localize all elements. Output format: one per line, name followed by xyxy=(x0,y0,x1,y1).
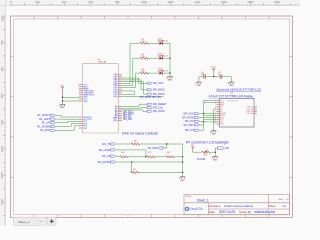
net port RL_RIGHT xyxy=(38,114,56,117)
junction R6 branch xyxy=(166,143,167,144)
junction bus row2 xyxy=(182,156,183,157)
net port SPI_MISO xyxy=(147,89,165,92)
svg-text:LED+: LED+ xyxy=(220,124,225,126)
svg-text:RS_ROD: RS_ROD xyxy=(148,147,159,150)
mcu left pins group B with names xyxy=(79,117,93,130)
svg-text:220: 220 xyxy=(141,41,144,43)
svg-text:SW_DATA: SW_DATA xyxy=(153,110,165,113)
net port SPI_RST (lcd input) xyxy=(183,124,199,127)
wire RS_TX to R6 xyxy=(115,143,131,145)
net port AS_ROD xyxy=(148,147,163,150)
wire branch to AS_ROD port xyxy=(163,144,167,148)
ground symbol (backlight) xyxy=(212,156,218,158)
svg-text:220: 220 xyxy=(141,56,144,58)
resistor R3 xyxy=(140,69,148,74)
svg-text:AO-3504_R: AO-3504_R xyxy=(158,69,169,72)
wire R7 to R8 xyxy=(155,156,166,158)
ground symbol (lcd) xyxy=(210,131,216,133)
svg-text:220: 220 xyxy=(141,71,144,73)
ground symbol (LED bus) xyxy=(167,77,173,79)
svg-text:1400: 1400 xyxy=(0,199,4,206)
frame division ticks xyxy=(11,16,293,218)
resistor R6 xyxy=(131,140,139,145)
ground symbol (C4) xyxy=(196,82,202,84)
net labels on mcu right pins xyxy=(123,112,134,121)
net port LED_A xyxy=(217,147,229,150)
resistor R1 xyxy=(140,39,148,44)
svg-text:10-100K: 10-100K xyxy=(197,159,206,161)
wire mcu pin to port SW_DATA xyxy=(122,110,147,111)
wire mcu pin to net label SPI_MISO xyxy=(122,95,164,97)
wire rail to ground xyxy=(62,101,64,104)
junction bus RS_DOWN xyxy=(182,161,183,162)
wire LED3 to bus xyxy=(163,72,170,74)
svg-text:Company:: Company: xyxy=(209,204,221,208)
svg-text:RS_DOWN: RS_DOWN xyxy=(98,161,111,164)
junction LED bus row3 xyxy=(169,72,170,73)
svg-text:SPI_MOSI: SPI_MOSI xyxy=(182,117,194,120)
junction RS_DOWN branch xyxy=(131,161,132,162)
svg-text:Sheet:: Sheet: xyxy=(269,205,276,208)
thermistor RT1 xyxy=(197,149,210,161)
svg-text:GND: GND xyxy=(197,85,202,87)
wire RS_LOAD elbow xyxy=(115,150,146,157)
svg-text:Date:: Date: xyxy=(209,210,216,214)
svg-text:RS_LOAD: RS_LOAD xyxy=(99,149,111,152)
svg-text:SPI_MOSI: SPI_MOSI xyxy=(153,93,165,96)
net port SPI_MOSI xyxy=(147,93,165,96)
svg-text:1200: 1200 xyxy=(167,0,174,4)
wire RT1 to node xyxy=(210,151,215,153)
svg-text:SPI_MISO: SPI_MISO xyxy=(153,89,165,92)
lcd U5 box xyxy=(219,98,254,127)
junction on 5V rail xyxy=(62,97,63,98)
junction LED bus row2 xyxy=(169,58,170,59)
LED LED1 xyxy=(158,39,169,46)
svg-text:REV:: REV: xyxy=(279,199,284,201)
svg-text:1200: 1200 xyxy=(0,172,4,179)
mcu left pins group A with names xyxy=(79,84,95,102)
LED ground bus vertical xyxy=(169,43,171,76)
svg-text:400: 400 xyxy=(62,0,67,4)
svg-text:Sainsmart 160X128 ST7735R LCD: Sainsmart 160X128 ST7735R LCD xyxy=(216,87,261,91)
wire R3 to LED3 xyxy=(148,72,160,74)
wire RS_DOWN long xyxy=(115,161,182,163)
svg-text:SPI_RST: SPI_RST xyxy=(183,124,194,127)
power flag 3V3 xyxy=(211,68,216,72)
svg-text:400: 400 xyxy=(0,66,4,71)
svg-text:AO-3504_R: AO-3504_R xyxy=(158,54,169,57)
wire lcd gnd pin down xyxy=(214,109,217,131)
wire lcd bus vertical xyxy=(203,101,205,131)
wire RL_RIGHT to mcu pin xyxy=(55,115,79,117)
net port SPI_MOSI (lcd input) xyxy=(182,117,199,120)
net port SPI_DC (lcd input) xyxy=(185,120,199,123)
junction backlight node xyxy=(215,152,216,153)
svg-text:GND: GND xyxy=(180,180,185,182)
svg-text:100n: 100n xyxy=(201,74,205,76)
svg-text:2022-04-09: 2022-04-09 xyxy=(219,210,236,214)
wire 5V to RT1 xyxy=(193,151,202,153)
net port SPI_CS (lcd input) xyxy=(185,129,199,132)
wire branch down to R9 xyxy=(131,162,132,172)
junction 3V3 rail xyxy=(213,76,214,77)
wire mcu pin to port SPI_SCK xyxy=(122,78,147,83)
svg-text:GND: GND xyxy=(211,134,216,136)
ground symbol (mcu left) xyxy=(59,104,65,106)
svg-text:RS_UP: RS_UP xyxy=(102,155,111,158)
svg-text:Drawn By:: Drawn By: xyxy=(239,210,252,214)
resistor R2 xyxy=(140,54,148,59)
svg-text:600: 600 xyxy=(0,93,4,98)
wire R10 to R7 xyxy=(129,156,147,158)
svg-text:1800: 1800 xyxy=(247,0,254,4)
svg-text:Sheet_1: Sheet_1 xyxy=(197,198,209,202)
svg-text:Sheet_1: Sheet_1 xyxy=(18,220,30,224)
svg-text:Crash Course arduino: Crash Course arduino xyxy=(224,204,254,208)
mcu right pins group B with names xyxy=(114,105,122,122)
wire R2 to LED2 xyxy=(148,57,160,59)
svg-text:TITLE:: TITLE: xyxy=(185,196,192,198)
wire RL_LEFT to mcu pin xyxy=(55,118,79,120)
resistor R7 xyxy=(147,152,155,158)
wire node to port LED_A xyxy=(215,148,217,152)
title block border xyxy=(184,195,290,215)
power flag 5V (mcu left) xyxy=(61,86,64,97)
wire 3V3 stem xyxy=(213,72,215,77)
wire R9 to bus xyxy=(139,171,183,173)
svg-text:200: 200 xyxy=(35,0,40,4)
wire 5V rail down xyxy=(63,97,79,101)
svg-text:1.8 inch TFT ST7735R LCD Displ: 1.8 inch TFT ST7735R LCD Display xyxy=(208,94,253,98)
svg-text:800: 800 xyxy=(0,120,4,125)
wire RL_DOWN to mcu pin xyxy=(55,124,79,127)
junction bus row3 xyxy=(182,172,183,173)
svg-text:SPI_SCK: SPI_SCK xyxy=(153,82,164,85)
power flag 5V (backlight) xyxy=(191,146,194,153)
svg-text:SPI_SCK: SPI_SCK xyxy=(183,113,194,116)
junction rail xyxy=(62,100,63,101)
wire RS_UP to R10 xyxy=(115,155,120,158)
net port RS_UP xyxy=(102,155,115,158)
wire lcd port bundle xyxy=(199,114,203,130)
svg-text:LCD-SPI TFT: LCD-SPI TFT xyxy=(227,101,239,103)
svg-text:RT control for LCD backlight: RT control for LCD backlight xyxy=(186,141,229,145)
svg-text:SPI_CS: SPI_CS xyxy=(185,129,194,132)
svg-text:2000: 2000 xyxy=(274,0,281,4)
junction row2 xyxy=(145,156,146,157)
mcu U2 box xyxy=(82,63,118,133)
svg-text:1u: 1u xyxy=(218,74,220,76)
resistor R10 xyxy=(120,152,129,158)
svg-text:wizard4Alpha: wizard4Alpha xyxy=(254,210,274,214)
wire mcu pin to resistor R1 xyxy=(122,43,140,83)
wire mcu pin row stub xyxy=(122,91,135,95)
svg-text:12: 12 xyxy=(214,123,216,125)
wire RL_RXD to mcu pin xyxy=(55,126,79,131)
svg-text:SPI_MISO SPI_SS: SPI_MISO SPI_SS xyxy=(140,96,162,99)
sheet frame outer border xyxy=(11,16,293,218)
svg-text:SPI_RST: SPI_RST xyxy=(123,119,133,121)
wire RL_UP to mcu pin xyxy=(55,121,79,122)
svg-text:RL_RIGHT: RL_RIGHT xyxy=(38,114,51,117)
svg-text:AO-3504_R: AO-3504_R xyxy=(158,40,169,43)
ground symbol (C5) xyxy=(228,82,234,84)
wires bus to lcd pins xyxy=(204,101,217,122)
svg-text:1400: 1400 xyxy=(194,0,201,4)
lcd right pins with names xyxy=(247,107,257,115)
capacitor C4 xyxy=(201,72,206,79)
svg-text:1600: 1600 xyxy=(221,0,228,4)
wire mcu pin to resistor R2 xyxy=(122,58,140,85)
wire LED2 to bus xyxy=(163,57,170,59)
svg-text:RL_RXD: RL_RXD xyxy=(40,129,50,132)
lcd pin numbers xyxy=(214,99,216,124)
sheet frame inner border xyxy=(14,19,290,215)
wire C4 to ground xyxy=(198,77,200,82)
svg-text:GND: GND xyxy=(168,80,173,82)
wire R1 to LED1 xyxy=(148,42,160,44)
svg-text:200: 200 xyxy=(0,40,4,45)
wire mcu pin to port SPI_MISO xyxy=(122,80,147,90)
LED LED2 xyxy=(158,54,169,61)
net port RL_DOWN xyxy=(37,125,55,128)
svg-text:RL_UP: RL_UP xyxy=(42,122,50,125)
svg-text:1000: 1000 xyxy=(0,145,4,152)
capacitor C5 xyxy=(218,72,222,79)
resistor R8 xyxy=(166,152,174,158)
svg-text:GND: GND xyxy=(83,101,88,103)
net port RS_TX xyxy=(102,143,115,146)
net port SW_RESET xyxy=(147,103,167,106)
resistor R9 xyxy=(131,169,139,174)
net port SW_DATA xyxy=(147,110,165,113)
wire 5V to VIN pin xyxy=(63,96,79,98)
net port SPI_SCK xyxy=(147,82,164,85)
ladder bus vertical xyxy=(182,144,184,177)
net port RL_UP xyxy=(42,122,55,125)
svg-text:DAC for Game Controls: DAC for Game Controls xyxy=(122,132,158,136)
net port SPI_SCK (lcd input) xyxy=(183,113,199,116)
wire R6 to bus xyxy=(140,143,183,145)
svg-text:GND: GND xyxy=(213,159,218,161)
ground symbol (ladder bus) xyxy=(179,177,185,179)
svg-text:GND: GND xyxy=(60,107,65,109)
svg-text:RL_LEFT: RL_LEFT xyxy=(39,118,50,121)
net port SW_CLK xyxy=(147,107,163,110)
wire decoupling rail xyxy=(199,76,232,78)
svg-text:1000: 1000 xyxy=(141,0,148,4)
svg-text:600: 600 xyxy=(88,0,93,4)
junction on lcd bus xyxy=(203,113,204,114)
svg-text:LTB: LTB xyxy=(225,147,230,150)
svg-text:SPI_DC: SPI_DC xyxy=(185,120,194,123)
net port RS_DOWN xyxy=(98,161,116,164)
svg-text:RS_TX: RS_TX xyxy=(102,143,110,146)
wire mcu pin to port SW_RESET xyxy=(122,104,147,106)
EasyEDA logo xyxy=(185,207,204,211)
wire mcu pin to resistor R3 xyxy=(122,73,140,87)
net port RL_RXD xyxy=(40,129,55,132)
net port RS_LOAD xyxy=(99,149,115,152)
svg-text:RL_DOWN: RL_DOWN xyxy=(37,125,50,128)
svg-text:CH32_A1: CH32_A1 xyxy=(98,61,108,64)
mcu right pins group A with names xyxy=(114,74,122,98)
wire C5 to ground xyxy=(230,77,232,82)
svg-text:EasyEDA: EasyEDA xyxy=(189,207,204,211)
svg-text:LED_K4: LED_K4 xyxy=(247,113,254,115)
wire mcu pin to port SPI_MOSI xyxy=(122,82,147,94)
lcd left pins with names xyxy=(216,100,226,125)
wire R8 to bus xyxy=(175,156,183,158)
net port RL_LEFT xyxy=(39,118,55,121)
wire LED1 to bus xyxy=(163,42,170,44)
LED LED3 xyxy=(158,68,169,75)
sheet tab bar xyxy=(14,217,57,225)
wire mcu pin to port SW_CLK xyxy=(122,107,147,109)
svg-text:800: 800 xyxy=(115,0,120,4)
wire node to ground xyxy=(214,152,216,156)
